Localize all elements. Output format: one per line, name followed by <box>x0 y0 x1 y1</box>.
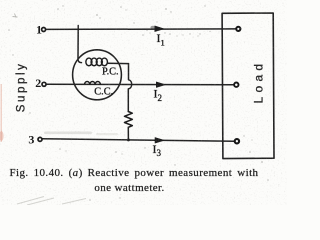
load terminal 2 <box>234 83 238 87</box>
arrow I3 on line 3 <box>155 138 164 144</box>
scan noise: top-left tick <box>13 14 18 18</box>
resistor R (series resistance) <box>125 112 133 128</box>
paper background <box>0 0 287 205</box>
load terminal 3 <box>235 139 239 143</box>
scan noise: speckles <box>8 5 269 201</box>
wire: supply line 3 from terminal 3 to load <box>42 139 234 142</box>
scan noise: ghost smudge above line 3 <box>44 132 92 135</box>
terminal 3 circle <box>38 137 42 141</box>
scan noise: bottom-left diagonal scratches <box>17 197 86 206</box>
load box <box>222 13 274 159</box>
terminal 1 circle <box>42 28 46 32</box>
node A: junction of pressure-coil tap on line 1 (tick) <box>77 25 79 29</box>
arrow I2 on line 2 <box>156 82 165 88</box>
wire: tap from line 1 down to pressure coil <box>78 29 82 63</box>
wire: right-side vertical drop with hop over line 2 <box>128 64 131 112</box>
wire: pressure coil output to right-side drop <box>107 62 128 64</box>
pressure coil P.C. (four loops) <box>86 58 108 66</box>
wire: supply line 1 from terminal 1 to load <box>46 28 236 31</box>
arrow I1 on line 1 <box>155 26 164 32</box>
wire: resistor to line 3 <box>127 127 129 140</box>
wire: supply line 2 from terminal 2 through current coil to load <box>46 83 234 85</box>
wattmeter W body <box>73 50 122 100</box>
load terminal 1 <box>236 27 240 31</box>
paper grain overlay <box>0 0 287 205</box>
current coil C.C. (three bumps on line 2) <box>85 81 101 84</box>
node B: junction of resistor lead on line 3 <box>127 138 130 141</box>
terminal 2 circle <box>42 82 46 86</box>
scan noise: left edge streak <box>1 84 2 142</box>
